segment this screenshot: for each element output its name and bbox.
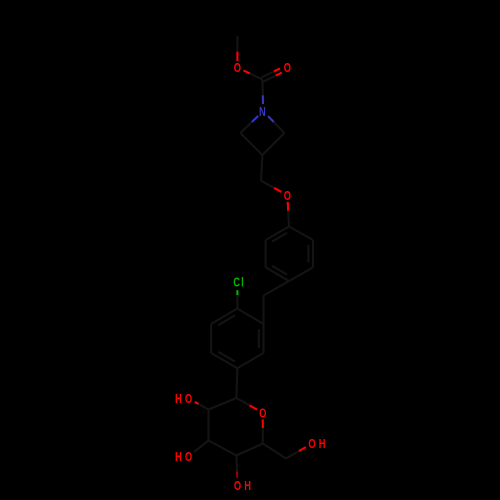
svg-text:l: l bbox=[241, 276, 244, 290]
sugar edge C3s-C2s bbox=[207, 410, 209, 441]
svg-text:N: N bbox=[259, 105, 266, 119]
bond C3s-Ob (C3 hydroxyl) bbox=[194, 441, 208, 453]
bond C4a-C3a (azetidine) bbox=[240, 133, 262, 155]
svg-text:O: O bbox=[234, 62, 241, 76]
ring1 aromatic inner line 1 bbox=[307, 245, 309, 263]
ring1 aromatic inner line 2 bbox=[272, 266, 287, 275]
bond CH3-O1 (methyl to ester oxygen) bbox=[236, 36, 238, 52]
ring1 edge R1b-R1bl bbox=[266, 267, 289, 281]
ring1 aromatic inner line 3 bbox=[272, 233, 287, 242]
ring1 edge R1t-R1tr bbox=[289, 227, 313, 241]
svg-text:O: O bbox=[259, 407, 266, 421]
ring2 edge R2br-R2b bbox=[237, 353, 263, 368]
bond N-C4a (azetidine) bbox=[252, 116, 258, 122]
bond R2b-C1s (aryl to sugar C1) bbox=[235, 368, 238, 398]
ring2 aromatic inner line 2 bbox=[218, 352, 235, 362]
ring1 edge R1bl-R1tl bbox=[265, 240, 267, 267]
ring2 aromatic inner line 3 bbox=[218, 315, 235, 325]
sugar edge C2s-C1s bbox=[209, 398, 237, 410]
bond C1s-O4 (pyran) bbox=[236, 398, 249, 405]
bond O3-R1t (ether O to ring 1) bbox=[287, 202, 290, 211]
bond CH2a-O3 (ether) bbox=[261, 181, 274, 188]
bond C2a-C3a (azetidine) bbox=[262, 133, 284, 155]
bond C0-N (carbamate C-N) bbox=[261, 80, 263, 96]
bond R1b-CH2b (benzylic bridge) bbox=[264, 281, 290, 295]
svg-text:O: O bbox=[284, 190, 291, 204]
double bond C0=O2 (carbonyl) bbox=[263, 76, 276, 82]
svg-text:O: O bbox=[308, 438, 315, 452]
bond C5s-CH2c bbox=[263, 444, 286, 459]
svg-text:H: H bbox=[175, 451, 182, 465]
bond N-C2a (azetidine) bbox=[268, 116, 274, 122]
bond Cl-R2t (chlorine) bbox=[236, 290, 238, 295]
svg-text:H: H bbox=[319, 438, 326, 452]
bond C2s-Oa (C2 hydroxyl) bbox=[199, 404, 209, 410]
ring1 edge R1tl-R1t bbox=[266, 227, 289, 241]
bond C3a-CH2a bbox=[261, 155, 262, 181]
ring2 aromatic inner line 1 bbox=[258, 329, 260, 348]
faint red half-bond tip above C4 OH label bbox=[236, 472, 238, 478]
ring1 edge R1br-R1b bbox=[289, 267, 313, 281]
svg-text:O: O bbox=[185, 393, 192, 407]
bond C4s-Oc (C4 hydroxyl) bbox=[235, 456, 238, 478]
sugar edge C4s-C3s bbox=[209, 441, 237, 456]
svg-text:H: H bbox=[175, 393, 182, 407]
ring2 edge R2t-R2tr bbox=[237, 309, 263, 325]
ring2 edge R2tr-R2br bbox=[262, 324, 264, 353]
bond O1-C0 (ester oxygen to carbonyl carbon) bbox=[244, 70, 250, 73]
ring2 edge R2bl-R2tl bbox=[210, 324, 212, 353]
svg-text:O: O bbox=[234, 480, 241, 494]
ring2 edge R2b-R2bl bbox=[211, 353, 237, 368]
bond CH2b-R2tr bbox=[262, 296, 264, 325]
svg-text:O: O bbox=[284, 62, 291, 76]
svg-text:H: H bbox=[244, 480, 251, 494]
sugar edge C5s-C4s bbox=[236, 444, 262, 456]
svg-text:C: C bbox=[233, 276, 240, 290]
ring1 edge R1tr-R1br bbox=[312, 240, 314, 267]
ring2 edge R2tl-R2t bbox=[211, 309, 237, 325]
bond O4-C5s (pyran) bbox=[262, 419, 264, 428]
bond CH2c-Od (CH2OH hydroxyl) bbox=[286, 451, 299, 459]
svg-text:O: O bbox=[185, 451, 192, 465]
